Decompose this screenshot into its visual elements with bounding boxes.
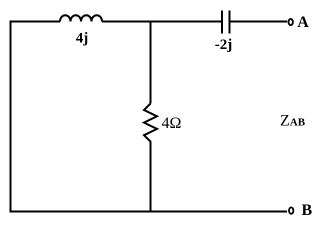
wire: top middle horizontal: [102, 21, 221, 23]
svg-text:4j: 4j: [76, 31, 89, 47]
terminal B: [289, 202, 313, 219]
capacitor -2j: [215, 11, 233, 53]
wire: branch bottom vertical: [150, 141, 152, 212]
svg-text:-2j: -2j: [215, 37, 233, 53]
svg-text:A: A: [297, 14, 309, 31]
svg-text:4Ω: 4Ω: [162, 115, 182, 132]
wire: top right horizontal: [231, 21, 288, 23]
svg-text:B: B: [302, 202, 313, 219]
terminal A: [289, 14, 310, 31]
wire: left vertical: [10, 21, 12, 213]
resistor 4Ω: [144, 104, 182, 142]
inductor 4j: [60, 15, 102, 46]
wire: bottom horizontal: [10, 211, 288, 213]
wire: branch top vertical: [150, 21, 152, 104]
wire: top-left horizontal: [10, 21, 61, 23]
